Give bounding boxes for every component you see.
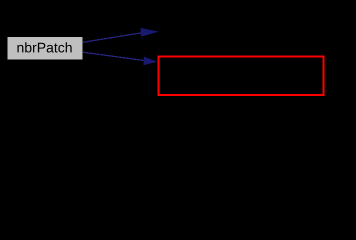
edge to hidden upper node (wire) bbox=[83, 28, 159, 42]
arrowhead lower bbox=[143, 57, 157, 66]
arrowhead upper bbox=[141, 28, 159, 37]
truncated node (red outline box) bbox=[159, 57, 324, 96]
edge to truncated red node (wire) bbox=[83, 52, 157, 65]
node nbrPatch (current node, grey fill) bbox=[8, 37, 83, 60]
